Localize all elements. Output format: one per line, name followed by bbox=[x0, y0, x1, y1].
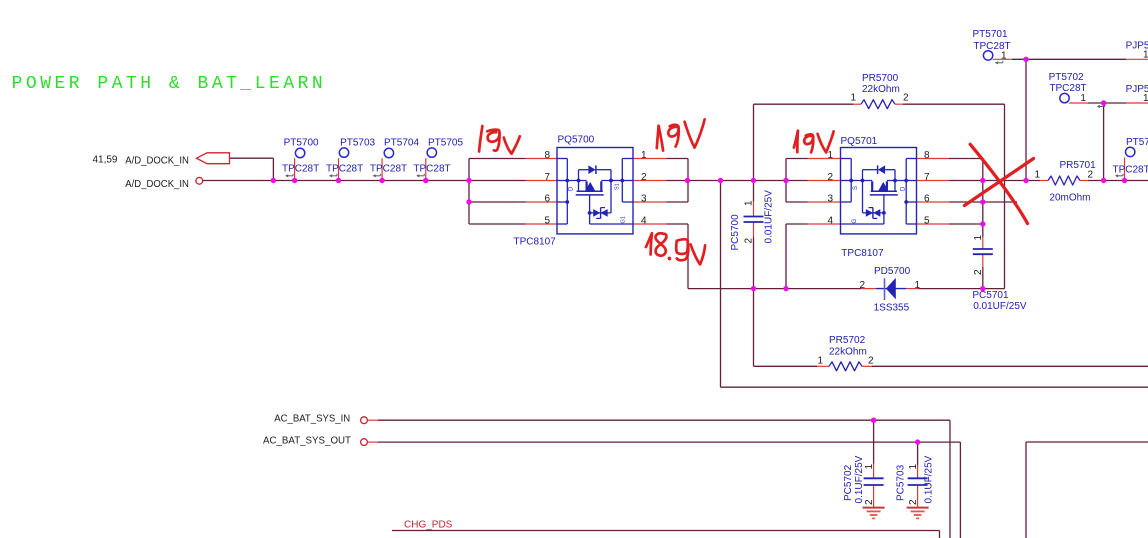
svg-text:TPC28T: TPC28T bbox=[326, 164, 363, 175]
svg-text:7: 7 bbox=[544, 172, 550, 183]
svg-text:PR5700: PR5700 bbox=[862, 73, 899, 84]
svg-text:G: G bbox=[852, 219, 858, 224]
svg-text:1: 1 bbox=[641, 150, 647, 161]
svg-text:S: S bbox=[853, 186, 859, 190]
svg-text:2: 2 bbox=[864, 499, 875, 505]
svg-text:41,59: 41,59 bbox=[92, 155, 117, 166]
svg-text:AC_BAT_SYS_IN: AC_BAT_SYS_IN bbox=[274, 413, 350, 424]
svg-text:PT5701: PT5701 bbox=[973, 29, 1008, 40]
svg-text:PT5705: PT5705 bbox=[428, 138, 463, 149]
svg-text:1: 1 bbox=[973, 235, 984, 241]
svg-text:PT570: PT570 bbox=[1126, 137, 1148, 148]
svg-text:0.1UF/25V: 0.1UF/25V bbox=[924, 455, 935, 503]
svg-text:2: 2 bbox=[743, 238, 754, 244]
svg-text:TPC28T: TPC28T bbox=[413, 164, 450, 175]
svg-text:2: 2 bbox=[868, 356, 874, 367]
svg-text:2: 2 bbox=[973, 269, 984, 275]
svg-text:PT5703: PT5703 bbox=[340, 138, 375, 149]
svg-text:PR5702: PR5702 bbox=[829, 335, 866, 346]
svg-text:TPC8107: TPC8107 bbox=[841, 248, 884, 259]
svg-text:TPC28T: TPC28T bbox=[1113, 165, 1148, 176]
svg-text:0.01UF/25V: 0.01UF/25V bbox=[973, 301, 1027, 312]
svg-text:TPC28T: TPC28T bbox=[370, 164, 407, 175]
svg-text:PC5700: PC5700 bbox=[730, 214, 741, 251]
svg-text:1: 1 bbox=[1080, 93, 1086, 104]
svg-text:TPC8107: TPC8107 bbox=[514, 236, 557, 247]
svg-text:POWER PATH & BAT_LEARN: POWER PATH & BAT_LEARN bbox=[12, 74, 327, 94]
svg-text:1: 1 bbox=[1001, 50, 1007, 61]
svg-text:1: 1 bbox=[817, 356, 823, 367]
svg-text:A/D_DOCK_IN: A/D_DOCK_IN bbox=[125, 179, 189, 190]
svg-text:2: 2 bbox=[827, 172, 833, 183]
svg-text:5: 5 bbox=[544, 215, 550, 226]
svg-text:PJP5: PJP5 bbox=[1126, 84, 1148, 95]
svg-text:7: 7 bbox=[924, 172, 930, 183]
svg-text:TPC28T: TPC28T bbox=[1049, 83, 1086, 94]
svg-text:0.1UF/25V: 0.1UF/25V bbox=[854, 455, 865, 503]
svg-text:20mOhm: 20mOhm bbox=[1049, 192, 1090, 203]
svg-text:G1: G1 bbox=[621, 216, 627, 223]
svg-text:CHG_PDS: CHG_PDS bbox=[404, 520, 453, 531]
svg-text:1: 1 bbox=[743, 200, 754, 206]
svg-text:3: 3 bbox=[827, 193, 833, 204]
svg-text:6: 6 bbox=[544, 193, 550, 204]
svg-text:1: 1 bbox=[1034, 170, 1040, 181]
svg-text:3: 3 bbox=[641, 193, 647, 204]
svg-text:1: 1 bbox=[908, 464, 919, 470]
svg-text:PQ5701: PQ5701 bbox=[841, 136, 878, 147]
svg-text:1: 1 bbox=[850, 92, 856, 103]
svg-text:2: 2 bbox=[908, 499, 919, 505]
svg-text:2: 2 bbox=[903, 92, 909, 103]
svg-text:PC5702: PC5702 bbox=[843, 464, 854, 501]
svg-text:1SS355: 1SS355 bbox=[874, 303, 910, 314]
svg-text:22kOhm: 22kOhm bbox=[862, 84, 900, 95]
svg-text:S1: S1 bbox=[615, 183, 621, 190]
svg-text:1: 1 bbox=[864, 464, 875, 470]
svg-text:8: 8 bbox=[544, 150, 550, 161]
svg-text:8: 8 bbox=[924, 150, 930, 161]
svg-text:6: 6 bbox=[924, 193, 930, 204]
svg-text:2: 2 bbox=[641, 172, 647, 183]
svg-text:D: D bbox=[901, 186, 907, 191]
svg-text:1: 1 bbox=[915, 280, 921, 291]
svg-text:TPC28T: TPC28T bbox=[973, 41, 1010, 52]
svg-text:2: 2 bbox=[1088, 170, 1094, 181]
svg-text:PC5703: PC5703 bbox=[896, 464, 907, 501]
svg-text:22kOhm: 22kOhm bbox=[829, 347, 867, 358]
svg-text:A/D_DOCK_IN: A/D_DOCK_IN bbox=[125, 155, 189, 166]
svg-text:PT5704: PT5704 bbox=[384, 138, 419, 149]
svg-text:PR5701: PR5701 bbox=[1060, 160, 1097, 171]
svg-text:PT5700: PT5700 bbox=[284, 138, 319, 149]
svg-text:0.01UF/25V: 0.01UF/25V bbox=[763, 190, 774, 244]
svg-text:4: 4 bbox=[827, 215, 833, 226]
svg-text:D: D bbox=[569, 186, 575, 191]
svg-text:PQ5700: PQ5700 bbox=[558, 135, 595, 146]
svg-text:PT5702: PT5702 bbox=[1049, 72, 1084, 83]
svg-text:1: 1 bbox=[827, 150, 833, 161]
svg-text:PC5701: PC5701 bbox=[972, 290, 1009, 301]
svg-text:2: 2 bbox=[859, 280, 865, 291]
svg-text:AC_BAT_SYS_OUT: AC_BAT_SYS_OUT bbox=[263, 435, 351, 446]
svg-text:5: 5 bbox=[924, 215, 930, 226]
svg-text:PJP5: PJP5 bbox=[1126, 40, 1148, 51]
svg-text:TPC28T: TPC28T bbox=[282, 164, 319, 175]
svg-text:4: 4 bbox=[641, 215, 647, 226]
svg-text:PD5700: PD5700 bbox=[874, 266, 911, 277]
